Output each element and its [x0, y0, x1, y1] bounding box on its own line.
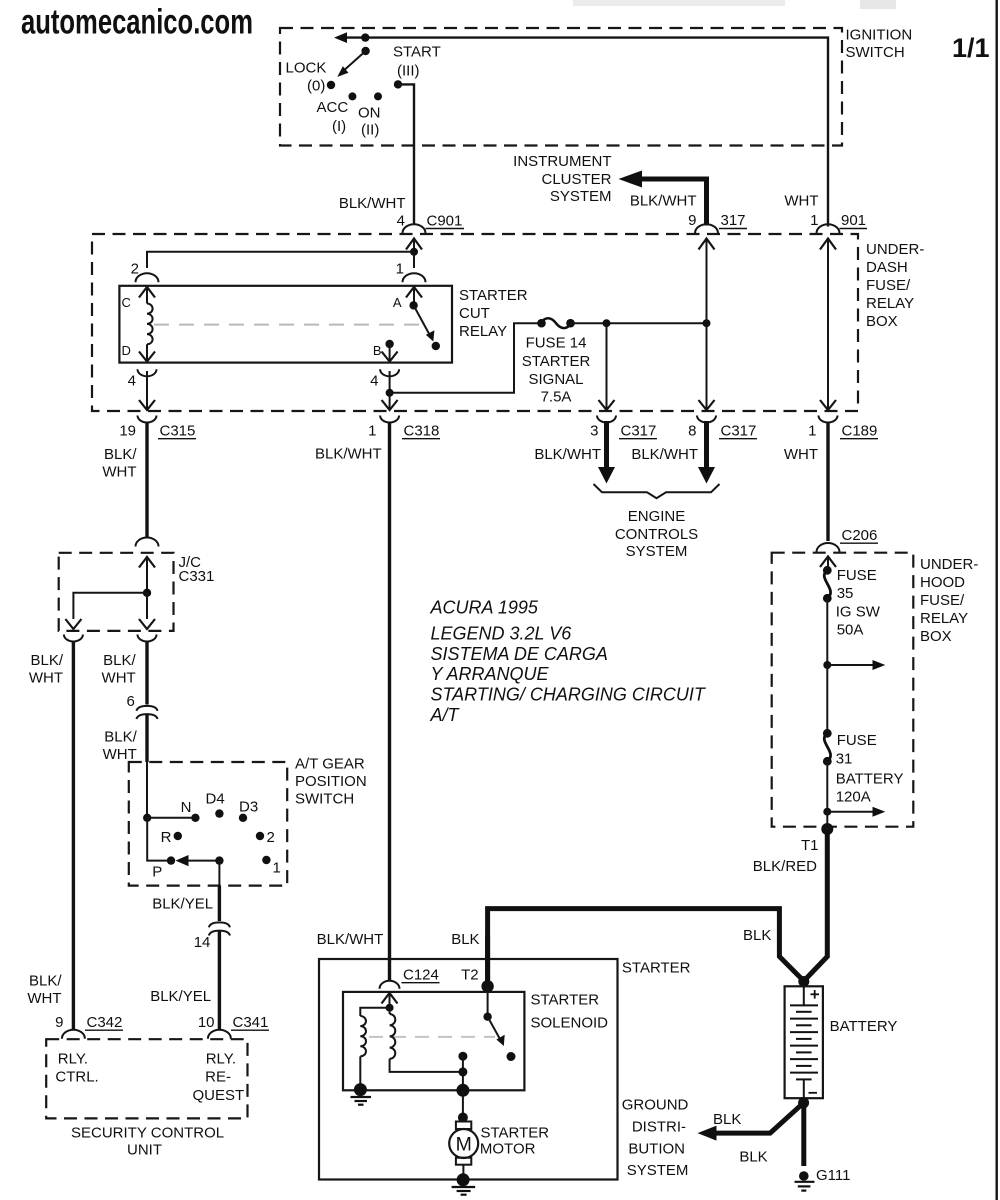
svg-text:BATTERY: BATTERY: [830, 1018, 898, 1035]
svg-text:C341: C341: [233, 1014, 269, 1031]
svg-text:D4: D4: [206, 791, 225, 808]
wire fuse31 to tap: [826, 761, 828, 811]
connector 317 cup: [695, 224, 718, 233]
wire wiper down: [218, 861, 220, 886]
connector C318 cup: [380, 416, 399, 423]
wire 14 to C341: [218, 931, 221, 1030]
svg-text:4: 4: [397, 213, 405, 230]
svg-text:BLK: BLK: [739, 1149, 767, 1166]
svg-text:WHT: WHT: [784, 193, 818, 210]
instrument cluster arrow wire: [619, 171, 707, 226]
wire fuse14 feed from relay B: [390, 323, 540, 393]
wire motor to ground: [462, 1165, 464, 1180]
battery positive node: [798, 976, 809, 987]
svg-text:BLK/: BLK/: [103, 652, 136, 669]
svg-text:IGNITION: IGNITION: [846, 27, 913, 44]
connector C206 cup: [817, 543, 840, 552]
inline connector 14: [209, 922, 230, 935]
ignition switch label: [846, 27, 913, 62]
vehicle title text: [430, 598, 707, 726]
connector C317 pin3 labels: [590, 423, 657, 440]
svg-text:BLK/: BLK/: [104, 729, 137, 746]
svg-text:D3: D3: [239, 799, 258, 816]
svg-text:BLK/WHT: BLK/WHT: [315, 446, 382, 463]
svg-text:STARTER: STARTER: [531, 992, 600, 1009]
ignition rotor contact top: [361, 33, 369, 41]
connector 901 arrow into box: [820, 239, 836, 255]
svg-text:BLK: BLK: [713, 1111, 741, 1128]
node tap 3: [603, 319, 611, 327]
svg-text:SIGNAL: SIGNAL: [528, 371, 583, 388]
battery feed arrow: [827, 807, 885, 817]
wire C318 down to starter C124: [388, 422, 391, 980]
label BLK/WHT right branch: [102, 652, 137, 687]
wire C315 down to J/C: [145, 422, 148, 538]
underhood fuse/relay box: [772, 553, 914, 827]
svg-text:4: 4: [370, 373, 378, 390]
contact R: [174, 832, 182, 840]
ground distribution wire arrow: [698, 1103, 804, 1141]
svg-text:1: 1: [273, 860, 281, 877]
svg-text:A/T GEAR: A/T GEAR: [295, 756, 365, 773]
svg-text:BLK/WHT: BLK/WHT: [630, 193, 697, 210]
wire fuse35 to tap: [826, 598, 828, 665]
node wiper: [215, 856, 223, 864]
security rly ctrl label: [55, 1051, 98, 1086]
svg-text:19: 19: [119, 423, 136, 440]
security control unit label: [71, 1125, 224, 1159]
svg-text:1: 1: [810, 212, 818, 229]
node J/C junction: [143, 589, 151, 597]
inline connector 6: [136, 706, 157, 719]
wire junction to relay pin 2: [147, 252, 414, 268]
node ig sw tap: [823, 661, 831, 669]
engine controls brace: [594, 484, 720, 498]
svg-text:MOTOR: MOTOR: [480, 1141, 536, 1158]
svg-text:2: 2: [131, 261, 139, 278]
svg-text:50A: 50A: [837, 622, 864, 639]
battery plus sign: [811, 990, 820, 999]
connector 901 cup: [817, 224, 840, 233]
svg-text:1: 1: [368, 423, 376, 440]
starter cut relay label: [459, 287, 528, 340]
svg-text:ON: ON: [358, 105, 381, 122]
svg-text:SYSTEM: SYSTEM: [550, 188, 612, 205]
switch wiper arrow to P: [176, 855, 220, 866]
solenoid output node top: [458, 1052, 467, 1061]
svg-text:31: 31: [836, 751, 853, 768]
svg-text:POSITION: POSITION: [295, 773, 367, 790]
junction connector C331 box: [59, 553, 174, 631]
svg-text:A: A: [393, 295, 402, 310]
svg-text:C315: C315: [160, 423, 196, 440]
svg-text:BOX: BOX: [866, 313, 898, 330]
node battery tap: [823, 808, 831, 816]
battery top stem: [803, 986, 805, 1005]
connector C341 labels: [198, 1014, 269, 1031]
battery box: [785, 986, 823, 1098]
svg-text:GROUND: GROUND: [622, 1097, 689, 1114]
contact D4: [215, 809, 223, 817]
wire common down to P: [147, 818, 167, 861]
J/C left exit cup: [64, 635, 83, 642]
svg-text:C: C: [122, 295, 131, 310]
svg-text:START: START: [393, 44, 441, 61]
ignition rotor pivot: [361, 47, 369, 55]
svg-text:C901: C901: [427, 213, 463, 230]
svg-text:DISTRI-: DISTRI-: [632, 1119, 686, 1136]
node B wire fuse tap: [386, 389, 394, 397]
svg-text:BLK/WHT: BLK/WHT: [339, 195, 406, 212]
scan smudges top: [573, 0, 896, 9]
wire fuse14 to taps: [570, 322, 707, 324]
node solenoid box exit: [456, 1084, 469, 1097]
solenoid hold-in coil: [390, 1008, 463, 1072]
fuse 14: [537, 318, 575, 328]
svg-text:35: 35: [837, 585, 854, 602]
solenoid coil ground: [351, 1083, 372, 1105]
svg-text:INSTRUMENT: INSTRUMENT: [513, 153, 611, 170]
svg-text:FUSE/: FUSE/: [920, 592, 965, 609]
svg-text:CTRL.: CTRL.: [55, 1069, 98, 1086]
relay contact end: [432, 342, 440, 350]
svg-text:ACC: ACC: [317, 99, 349, 116]
svg-text:D: D: [122, 343, 131, 358]
wire junction to relay pin 1: [413, 252, 415, 268]
svg-text:(0): (0): [307, 78, 325, 95]
svg-text:C189: C189: [842, 423, 878, 440]
svg-text:C317: C317: [721, 423, 757, 440]
svg-text:HOOD: HOOD: [920, 574, 965, 591]
svg-text:SISTEMA DE CARGA: SISTEMA DE CARGA: [431, 644, 608, 664]
svg-text:BLK: BLK: [451, 931, 479, 948]
wire WHT through box: [820, 254, 836, 410]
svg-text:P: P: [152, 864, 162, 881]
svg-text:STARTER: STARTER: [459, 287, 528, 304]
website watermark automecanico.com: [21, 3, 253, 42]
svg-text:BLK/: BLK/: [30, 652, 63, 669]
svg-text:SWITCH: SWITCH: [295, 791, 354, 808]
svg-text:8: 8: [688, 423, 696, 440]
ground distribution system label: [622, 1097, 689, 1180]
starter motor: [449, 1122, 478, 1165]
node solenoid coils: [386, 1004, 394, 1012]
wire C189 to C206: [826, 422, 829, 541]
svg-text:4: 4: [128, 373, 136, 390]
svg-text:R: R: [161, 829, 172, 846]
svg-text:STARTER: STARTER: [522, 353, 591, 370]
solenoid centerline dashed: [369, 1036, 495, 1038]
svg-text:BLK/: BLK/: [104, 446, 137, 463]
wire battery to G111: [801, 1103, 806, 1166]
svg-text:7.5A: 7.5A: [541, 389, 572, 406]
svg-text:RELAY: RELAY: [920, 610, 968, 627]
svg-text:M: M: [456, 1134, 472, 1156]
node motor feed: [458, 1113, 468, 1123]
svg-text:T1: T1: [801, 837, 819, 854]
relay pin 2 cup: [136, 273, 159, 282]
connector C341 cup: [208, 1030, 231, 1039]
contact 1: [262, 856, 270, 864]
svg-text:WHT: WHT: [27, 990, 61, 1007]
svg-text:C342: C342: [87, 1014, 123, 1031]
instrument cluster system label: [513, 153, 611, 205]
svg-text:WHT: WHT: [102, 670, 136, 687]
label BLK/WHT c315 wire: [102, 446, 137, 481]
svg-text:LOCK: LOCK: [286, 60, 327, 77]
solenoid entry arrow: [382, 993, 398, 1008]
svg-text:CONTROLS: CONTROLS: [615, 526, 698, 543]
svg-text:9: 9: [688, 212, 696, 229]
underhood box label: [920, 556, 978, 645]
connector C342 cup: [62, 1030, 85, 1039]
relay pin 1 arrow: [406, 287, 422, 302]
svg-text:(III): (III): [397, 63, 420, 80]
svg-text:(I): (I): [332, 118, 346, 135]
svg-text:BLK: BLK: [743, 927, 771, 944]
connector C315 labels: [119, 423, 196, 440]
svg-text:SYSTEM: SYSTEM: [627, 1162, 689, 1179]
svg-text:IG SW: IG SW: [836, 604, 881, 621]
svg-text:FUSE 14: FUSE 14: [526, 335, 587, 352]
label BLK/WHT 9 317: [630, 193, 747, 230]
relay switch blade: [414, 305, 435, 341]
relay pin 1 cup: [403, 273, 426, 282]
contact P: [167, 856, 175, 864]
security control unit box: [46, 1039, 247, 1118]
ON label: [358, 105, 381, 139]
relay pin4 right cup: [380, 369, 399, 376]
svg-text:(II): (II): [361, 122, 379, 139]
label BLK/WHT at gear switch: [103, 729, 138, 764]
svg-text:2: 2: [267, 829, 275, 846]
svg-text:UNDER-: UNDER-: [920, 556, 978, 573]
connector C189 cup: [819, 416, 838, 423]
wire T1 to battery positive: [804, 829, 828, 981]
ACC label: [317, 99, 349, 135]
wire J/C branch left: [65, 593, 147, 629]
engine controls arrow 3: [598, 421, 615, 484]
node coil join: [458, 1067, 467, 1076]
svg-text:BLK/: BLK/: [29, 973, 62, 990]
svg-text:WHT: WHT: [784, 446, 818, 463]
under-dash box label: [866, 241, 924, 330]
svg-text:STARTING/ CHARGING CIRCUIT: STARTING/ CHARGING CIRCUIT: [431, 685, 707, 705]
svg-text:QUEST: QUEST: [193, 1087, 245, 1104]
battery minus sign: [809, 1092, 818, 1094]
svg-text:BLK/WHT: BLK/WHT: [534, 446, 601, 463]
A/T gear position switch label: [295, 756, 367, 808]
right page border: [996, 0, 998, 1200]
wire left branch down to C342: [72, 641, 75, 1030]
svg-text:SYSTEM: SYSTEM: [626, 543, 688, 560]
label C206: [840, 527, 878, 544]
svg-text:UNIT: UNIT: [127, 1142, 162, 1159]
svg-text:RE-: RE-: [205, 1069, 231, 1086]
connector C317 pin3 cup: [597, 416, 616, 423]
wire coil to C315: [139, 371, 155, 410]
svg-text:A/T: A/T: [430, 705, 461, 725]
svg-text:901: 901: [841, 212, 866, 229]
solenoid switch contact top: [483, 986, 491, 1021]
fuse 35: [823, 566, 832, 603]
starter solenoid label: [531, 992, 609, 1032]
J/C entry arrow: [139, 557, 155, 593]
relay centerline dashed: [154, 324, 420, 326]
node tap 8: [703, 319, 711, 327]
solenoid pull-in coil: [360, 1008, 389, 1089]
contact N: [191, 814, 199, 822]
node switch common: [143, 814, 151, 822]
svg-text:BLK/WHT: BLK/WHT: [317, 931, 384, 948]
fuse 35 label: [836, 567, 881, 639]
terminal T2 node: [481, 980, 493, 992]
wire relay B to C318: [382, 371, 398, 410]
svg-text:ACURA 1995: ACURA 1995: [430, 598, 539, 618]
START contact: [394, 80, 402, 88]
svg-text:B: B: [373, 343, 382, 358]
connector C901 arrow into box: [406, 239, 422, 253]
ACC contact: [348, 92, 356, 100]
svg-text:14: 14: [194, 934, 211, 951]
terminal T1: [821, 812, 833, 835]
label BLK/WHT at C342: [27, 973, 62, 1008]
wire right branch to connector 6: [145, 641, 148, 705]
connector C206 arrow into box: [820, 557, 836, 571]
battery plates: [790, 1005, 818, 1079]
solenoid switch blade: [488, 1017, 505, 1046]
svg-text:SECURITY CONTROL: SECURITY CONTROL: [71, 1125, 224, 1142]
fuse 31 label: [836, 732, 904, 806]
svg-text:RLY.: RLY.: [58, 1051, 88, 1068]
wire J/C main down: [139, 593, 155, 629]
fuse 14 label: [522, 335, 591, 406]
svg-text:BLK/WHT: BLK/WHT: [631, 446, 698, 463]
wire START to C901: [398, 84, 414, 224]
svg-text:C331: C331: [179, 568, 215, 585]
svg-text:1: 1: [808, 423, 816, 440]
contact D3: [239, 814, 247, 822]
engine controls arrow 8: [698, 421, 715, 484]
svg-text:RELAY: RELAY: [866, 295, 914, 312]
relay coil exit arrow down: [139, 352, 155, 362]
relay pin 2 arrow: [139, 287, 155, 301]
wire connector 6 to A/T box: [145, 715, 148, 762]
svg-text:LEGEND 3.2L V6: LEGEND 3.2L V6: [431, 624, 573, 644]
svg-text:WHT: WHT: [29, 670, 63, 687]
relay pin4 left cup: [138, 369, 157, 376]
START label: [393, 44, 441, 80]
svg-text:STARTER: STARTER: [481, 1125, 550, 1142]
wire solenoid to motor: [462, 1090, 464, 1121]
svg-text:6: 6: [126, 693, 134, 710]
svg-text:STARTER: STARTER: [622, 960, 691, 977]
connector J/C top cup: [136, 538, 159, 547]
ground G111: [795, 1171, 815, 1190]
wire ignition feed to left arrow: [334, 32, 828, 226]
svg-text:C206: C206: [842, 527, 878, 544]
starter cut relay box: [119, 286, 452, 363]
starter motor label: [480, 1125, 549, 1158]
contact 2: [256, 832, 264, 840]
label BLK/WHT left branch: [29, 652, 64, 687]
svg-text:ENGINE: ENGINE: [628, 508, 686, 525]
starter motor ground: [452, 1173, 476, 1194]
svg-text:N: N: [181, 799, 192, 816]
label BLK/WHT wire 4 C901: [339, 195, 464, 230]
wire common to N: [147, 817, 195, 819]
svg-text:BLK/RED: BLK/RED: [753, 858, 817, 875]
connector C124 label: [402, 967, 440, 984]
svg-text:BOX: BOX: [920, 628, 952, 645]
svg-text:WHT: WHT: [102, 464, 136, 481]
label WHT 1 901: [784, 193, 867, 230]
LOCK contact: [327, 81, 335, 89]
starter box: [319, 959, 618, 1180]
svg-text:DASH: DASH: [866, 259, 908, 276]
under-dash fuse/relay box: [92, 234, 858, 411]
solenoid output wire: [462, 1056, 464, 1090]
relay coil: [147, 299, 153, 361]
wire starter T2 to battery positive: [488, 909, 804, 987]
svg-text:10: 10: [198, 1014, 215, 1031]
svg-text:G111: G111: [816, 1167, 850, 1184]
svg-text:CLUSTER: CLUSTER: [541, 171, 611, 188]
connector C189 labels: [808, 423, 878, 440]
svg-text:C317: C317: [621, 423, 657, 440]
svg-text:3: 3: [590, 423, 598, 440]
relay contact A: [409, 301, 417, 309]
svg-text:1: 1: [396, 261, 404, 278]
svg-text:automecanico.com: automecanico.com: [21, 3, 253, 42]
svg-text:RLY.: RLY.: [206, 1051, 236, 1068]
connector C315 cup: [138, 416, 157, 423]
svg-text:120A: 120A: [836, 789, 871, 806]
svg-text:FUSE/: FUSE/: [866, 277, 911, 294]
svg-text:UNDER-: UNDER-: [866, 241, 924, 258]
battery negative node: [798, 1097, 809, 1108]
svg-text:9: 9: [55, 1014, 63, 1031]
engine controls system label: [615, 508, 698, 560]
svg-text:1/1: 1/1: [952, 33, 990, 63]
node junction above relay pin 1: [410, 248, 418, 256]
fuse 31: [823, 729, 832, 766]
J/C C331 label: [179, 554, 215, 585]
connector C124 cup: [380, 981, 400, 989]
relay pin B wire exit: [382, 344, 398, 362]
svg-text:BLK/YEL: BLK/YEL: [152, 896, 213, 913]
ignition switch blade toward LOCK: [337, 51, 365, 77]
ignition switch box: [280, 28, 842, 146]
starter solenoid box: [343, 992, 524, 1090]
wire into switch common: [146, 762, 148, 818]
security rly request label: [193, 1051, 245, 1104]
battery bottom stem: [803, 1079, 805, 1098]
svg-text:FUSE: FUSE: [837, 567, 877, 584]
wire BLK into T2: [485, 935, 490, 986]
connector C317 pin8 cup: [697, 416, 716, 423]
A/T gear position switch box: [129, 762, 287, 886]
J/C right exit cup: [138, 635, 157, 642]
LOCK label: [286, 60, 327, 95]
relay contact B: [385, 340, 393, 348]
connector C901 cup: [403, 224, 426, 233]
connector C318 labels: [368, 423, 440, 440]
connector 317 arrow into box: [699, 239, 715, 255]
svg-text:Y ARRANQUE: Y ARRANQUE: [431, 664, 550, 684]
svg-text:SOLENOID: SOLENOID: [531, 1015, 609, 1032]
svg-text:317: 317: [721, 212, 746, 229]
